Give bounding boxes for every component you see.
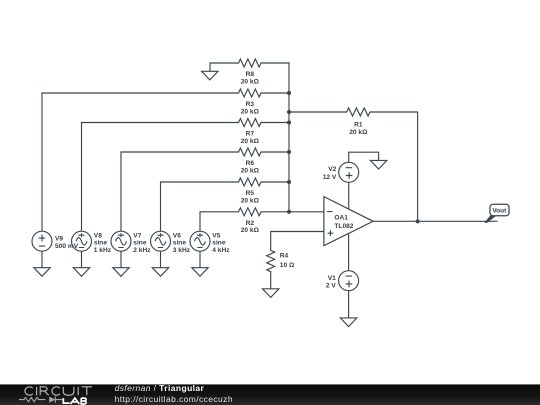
svg-text:20 kΩ: 20 kΩ [349,129,368,136]
svg-text:20 kΩ: 20 kΩ [241,167,260,174]
wire R8 left [210,63,239,71]
svg-text:20 kΩ: 20 kΩ [241,197,260,204]
logo diode [49,397,55,403]
svg-text:2 V: 2 V [326,283,336,290]
wire V5 to ground [199,251,201,268]
wire V9 riser to R3 row [42,93,239,231]
svg-text:V7: V7 [133,232,141,239]
logo resistor squiggle [19,397,46,401]
wire R5 right [261,181,289,183]
svg-text:V9: V9 [55,235,63,242]
ground at V2 [370,160,386,169]
wire V7 to ground [120,251,122,268]
wire op-amp V- pin [348,234,350,271]
svg-text:500 mV: 500 mV [55,243,79,250]
svg-text:1 kHz: 1 kHz [94,247,112,254]
voltage source V1 [339,271,359,291]
svg-text:sine: sine [94,240,108,247]
resistor R7 [239,119,262,127]
wire op-amp V+ pin [348,182,350,209]
resistor R3 [239,89,262,97]
svg-text:OA1: OA1 [334,215,348,222]
svg-text:R1: R1 [354,122,363,129]
wire R7 right [261,122,289,124]
wire R1 right down to output [370,112,418,221]
svg-text:4 kHz: 4 kHz [212,247,230,254]
svg-text:R6: R6 [246,160,255,167]
sine source V6 [151,231,171,251]
resistor R2 [239,208,262,216]
wire R4 bottom to ground [270,272,272,289]
wire V1 bottom to ground [348,291,350,318]
svg-text:http://circuitlab.com/ccecuzh: http://circuitlab.com/ccecuzh [115,394,233,404]
ground at V9 [34,268,50,277]
footer bar [0,384,540,405]
wire R2 right to op-amp inverting input [261,211,324,213]
svg-text:20 kΩ: 20 kΩ [241,227,260,234]
wire summing bus [288,63,290,212]
resistor R5 [239,178,262,186]
voltage source V9 [32,231,52,251]
svg-text:R5: R5 [246,190,255,197]
wire R1 left from bus [289,111,347,113]
logo word LAB [63,398,86,404]
wire R6 right [261,151,289,153]
svg-text:R8: R8 [246,71,255,78]
wire V6 riser to R5 row [161,182,239,231]
wire V2 top to ground [349,152,379,162]
wire V5 riser to R2 row [200,212,239,231]
svg-text:20 kΩ: 20 kΩ [241,78,260,85]
wire V9 to ground [41,251,43,268]
op-amp OA1 [324,197,373,246]
ground at V5 [192,268,208,277]
wire R3 right [261,92,289,94]
wire op-amp output to Vout [373,220,497,222]
CircuitLab logo word CIRCUIT [25,387,92,395]
resistor R4 [267,250,275,271]
svg-text:V8: V8 [94,232,102,239]
ground at V6 [152,268,168,277]
svg-text:Vout: Vout [492,208,507,215]
svg-text:V1: V1 [328,275,336,282]
svg-text:V2: V2 [328,166,336,173]
svg-text:R3: R3 [246,101,255,108]
svg-text:R4: R4 [280,253,289,260]
svg-text:R7: R7 [246,131,255,138]
ground at R8 left [202,71,218,80]
wire R8 right [261,62,289,64]
sine source V7 [111,231,131,251]
svg-text:sine: sine [173,240,187,247]
svg-text:12 V: 12 V [323,174,337,181]
ground at V8 [73,268,89,277]
svg-text:sine: sine [133,240,147,247]
svg-text:20 kΩ: 20 kΩ [241,108,260,115]
wire V8 riser to R7 row [82,123,239,232]
svg-text:TL082: TL082 [334,223,353,230]
svg-text:dsfernan / Triangular: dsfernan / Triangular [115,384,205,393]
node junction dots [287,91,420,224]
resistor R6 [239,148,262,156]
svg-text:2 kHz: 2 kHz [133,247,151,254]
svg-text:sine: sine [212,240,226,247]
sine source V5 [190,231,210,251]
sine source V8 [72,231,92,251]
svg-text:20 kΩ: 20 kΩ [241,138,260,145]
svg-text:3 kHz: 3 kHz [173,247,191,254]
ground at V1 [340,318,356,327]
svg-text:V6: V6 [173,232,181,239]
resistor R8 [239,59,262,67]
ground at V7 [113,268,129,277]
svg-text:V5: V5 [212,232,220,239]
wire V8 to ground [81,251,83,268]
svg-text:10 Ω: 10 Ω [280,262,295,269]
voltage source V2 [339,162,359,182]
ground at R4 [263,289,279,298]
resistor R1 [347,108,370,116]
svg-text:R2: R2 [246,220,255,227]
wire op-amp non-inverting input to R4 [271,232,324,251]
wire V7 riser to R6 row [121,152,239,231]
wire V6 to ground [160,251,162,268]
node Vout flag [484,204,509,223]
